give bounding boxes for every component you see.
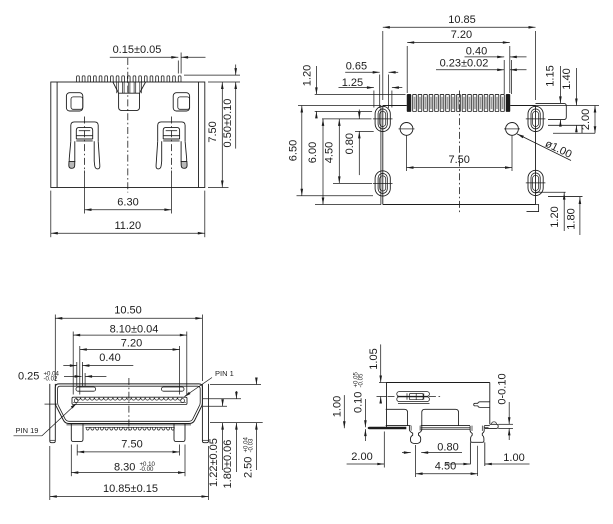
svg-text:0.50±0.10: 0.50±0.10: [222, 99, 234, 148]
svg-text:0.15±0.05: 0.15±0.05: [113, 44, 162, 56]
svg-text:4.50: 4.50: [435, 461, 456, 473]
svg-text:6.00: 6.00: [307, 142, 319, 163]
svg-text:6.30: 6.30: [117, 197, 138, 209]
svg-text:8.30: 8.30: [114, 461, 135, 473]
svg-text:0.10: 0.10: [353, 392, 365, 413]
svg-text:7.50: 7.50: [448, 154, 469, 166]
svg-text:4.50: 4.50: [323, 142, 335, 163]
svg-text:1.00: 1.00: [332, 396, 344, 417]
svg-text:7.50: 7.50: [207, 121, 219, 142]
svg-text:0.25: 0.25: [18, 371, 39, 383]
svg-text:-0.00: -0.00: [140, 466, 155, 473]
svg-text:7.50: 7.50: [121, 439, 142, 451]
svg-text:0.40: 0.40: [466, 45, 487, 57]
svg-text:0-0.10: 0-0.10: [496, 373, 508, 404]
svg-text:1.05: 1.05: [368, 348, 380, 369]
svg-text:1.25: 1.25: [342, 77, 363, 89]
svg-text:10.85: 10.85: [448, 14, 476, 26]
svg-text:1.80: 1.80: [566, 208, 578, 229]
svg-text:1.15: 1.15: [545, 65, 557, 86]
svg-text:PIN 19: PIN 19: [16, 426, 39, 435]
svg-text:1.20: 1.20: [549, 206, 561, 227]
svg-text:2.00: 2.00: [580, 109, 592, 130]
svg-text:-0.02: -0.02: [44, 375, 59, 382]
svg-text:2.00: 2.00: [351, 451, 372, 463]
svg-text:7.20: 7.20: [121, 338, 142, 350]
svg-text:8.10±0.04: 8.10±0.04: [110, 324, 159, 336]
svg-text:2.50: 2.50: [243, 457, 255, 478]
svg-text:-0.03: -0.03: [247, 438, 254, 453]
svg-text:1.00: 1.00: [503, 452, 524, 464]
svg-text:0.80: 0.80: [437, 442, 458, 454]
svg-text:1.20: 1.20: [302, 65, 314, 86]
svg-text:0.80: 0.80: [344, 133, 356, 154]
svg-text:1.80±0.06: 1.80±0.06: [222, 440, 234, 489]
svg-text:0.40: 0.40: [99, 352, 120, 364]
svg-text:6.50: 6.50: [287, 140, 299, 161]
svg-text:10.50: 10.50: [114, 305, 142, 317]
svg-text:0.65: 0.65: [346, 60, 367, 72]
svg-text:PIN 1: PIN 1: [215, 369, 234, 378]
svg-text:-0.05: -0.05: [357, 373, 364, 388]
svg-text:11.20: 11.20: [114, 220, 141, 232]
svg-text:0.23±0.02: 0.23±0.02: [440, 57, 489, 69]
svg-text:1.40: 1.40: [561, 68, 573, 89]
svg-text:1.22±0.05: 1.22±0.05: [208, 438, 220, 487]
svg-text:10.85±0.15: 10.85±0.15: [103, 483, 158, 495]
svg-text:7.20: 7.20: [451, 29, 472, 41]
